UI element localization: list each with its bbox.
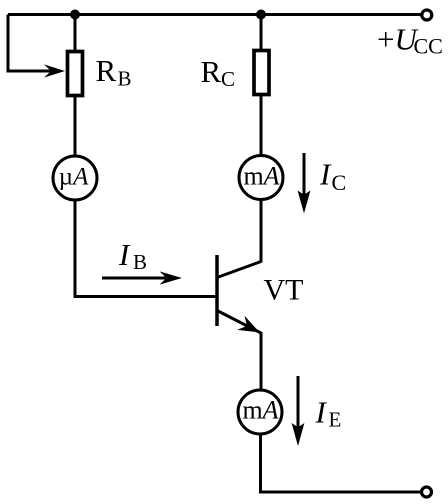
wire emitter bottom: [259, 434, 262, 492]
resistor RB: [68, 52, 83, 96]
meter mA emitter: [238, 390, 282, 434]
arrow IB: [102, 271, 182, 284]
label +UCC: [377, 22, 443, 59]
wire collector: [260, 200, 263, 263]
label RB: [96, 53, 132, 91]
wire top rail: [8, 13, 421, 16]
label IE: [315, 395, 342, 432]
wire bottom rail: [259, 491, 421, 494]
label IC: [319, 157, 346, 196]
arrow IE: [292, 376, 305, 446]
svg-text:mA: mA: [243, 162, 279, 191]
wire uA to base: [75, 200, 216, 297]
transistor VT collector lead: [217, 262, 261, 278]
node junction dot right (top of RC branch): [256, 10, 266, 20]
svg-text:R: R: [201, 54, 222, 89]
svg-text:mA: mA: [242, 396, 278, 425]
svg-text:C: C: [332, 170, 347, 195]
svg-text:C: C: [221, 67, 235, 91]
meter uA (microammeter): [53, 156, 97, 200]
arrow IC: [298, 153, 311, 214]
svg-text:I: I: [315, 395, 328, 430]
wire RC top: [260, 15, 263, 51]
wire RB bottom: [74, 96, 77, 158]
wire RC bottom: [260, 95, 263, 157]
svg-text:B: B: [133, 250, 147, 274]
label RC: [201, 54, 236, 91]
meter mA collector: [239, 156, 283, 200]
wire RB top: [74, 15, 77, 52]
svg-text:E: E: [329, 408, 342, 432]
svg-text:VT: VT: [264, 274, 304, 307]
terminal +UCC: [422, 10, 432, 20]
terminal bottom right: [422, 487, 432, 497]
transistor VT base bar: [215, 255, 219, 326]
label IB: [118, 237, 147, 274]
svg-text:µA: µA: [59, 164, 89, 191]
transistor VT emitter arrowhead: [237, 316, 259, 333]
wire left wiper loop: [8, 15, 52, 72]
wiper arrowhead into RB: [44, 64, 65, 77]
svg-text:R: R: [96, 53, 117, 88]
svg-text:CC: CC: [414, 34, 443, 59]
svg-text:B: B: [118, 67, 132, 91]
node junction dot left (top of RB branch): [70, 10, 80, 20]
svg-text:I: I: [319, 157, 332, 192]
wire emitter: [260, 332, 263, 391]
resistor RC: [254, 51, 269, 95]
svg-text:I: I: [118, 237, 131, 272]
transistor VT emitter lead: [217, 311, 261, 334]
